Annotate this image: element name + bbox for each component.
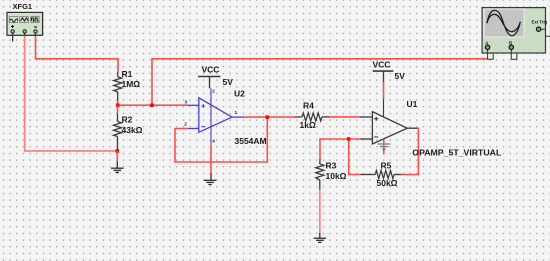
ground below R2 — [111, 162, 124, 173]
minus sign — [34, 26, 37, 28]
wire: R5 right to U1 output — [401, 128, 418, 174]
svg-text:VCC: VCC — [373, 60, 391, 70]
button square — [31, 17, 39, 23]
op-amp U1 (OPAMP_5T_VIRTUAL) — [360, 99, 417, 144]
terminal common — [23, 30, 26, 33]
junction node riser to scope — [150, 103, 154, 107]
ground below R3 — [314, 233, 327, 242]
function generator XFG1 — [7, 2, 43, 42]
svg-text:50kΩ: 50kΩ — [377, 178, 398, 188]
wire: XFG1 common terminal to R2 bottom node — [25, 35, 118, 151]
wire segment R4 right to U1 — [330, 116, 360, 118]
button sine — [9, 17, 17, 23]
terminal A — [485, 45, 489, 49]
svg-text:3554AM: 3554AM — [235, 136, 267, 146]
terminal Ext Trig — [536, 27, 540, 31]
wire: XFG1 minus terminal to R1 top — [36, 35, 119, 73]
stub + terminal — [12, 33, 14, 41]
wire: R5 feedback loop left — [349, 139, 361, 175]
VCC symbol U2 — [198, 64, 233, 88]
resistor R2 — [114, 114, 122, 150]
wire: divider node to U2 + input — [118, 101, 188, 106]
terminal - — [34, 30, 37, 33]
wire: U1 - input node to R3 — [320, 139, 360, 159]
svg-text:5V: 5V — [395, 71, 406, 81]
wire: U2 output to R4 to U1 + input — [243, 116, 295, 118]
svg-text:VCC: VCC — [202, 64, 220, 74]
svg-text:1: 1 — [235, 110, 238, 115]
junction node U2 output / feedback — [266, 115, 270, 119]
wire: VCC to U1 V+ pin — [383, 82, 385, 100]
wire: U2 feedback loop — [175, 117, 267, 162]
resistor R4 — [295, 113, 330, 121]
U1 V- reference bars — [378, 144, 391, 149]
wire: divider node riser to oscilloscope A — [152, 59, 488, 105]
terminal B — [509, 45, 513, 49]
svg-text:4: 4 — [212, 139, 215, 144]
button triangle — [20, 17, 29, 23]
svg-text:1MΩ: 1MΩ — [122, 79, 141, 89]
svg-text:10kΩ: 10kΩ — [326, 171, 347, 181]
svg-text:R4: R4 — [303, 101, 314, 111]
svg-text:R5: R5 — [381, 161, 392, 171]
wire divider node to R2 — [117, 105, 119, 114]
scope trace A — [487, 10, 520, 36]
pin numbers U2 — [184, 89, 237, 144]
VCC symbol U1 — [373, 60, 406, 82]
svg-text:2: 2 — [212, 89, 215, 94]
resistor R1 — [114, 72, 122, 100]
plus sign — [11, 25, 14, 28]
svg-text:R1: R1 — [122, 69, 133, 79]
wire R2 junction to ground — [116, 151, 118, 162]
resistor R5 — [361, 171, 402, 179]
svg-text:Ext Trig: Ext Trig — [532, 19, 548, 24]
svg-text:XFG1: XFG1 — [13, 2, 33, 11]
op-amp U2 (3554AM) — [188, 88, 244, 145]
svg-text:43kΩ: 43kΩ — [122, 125, 143, 135]
wire: R3 bottom to ground — [319, 190, 321, 233]
svg-text:1kΩ: 1kΩ — [300, 120, 316, 130]
stub - terminal — [35, 33, 37, 35]
svg-text:R2: R2 — [122, 115, 133, 125]
scope trace B — [487, 14, 520, 31]
terminal + — [11, 30, 14, 33]
svg-text:R3: R3 — [326, 161, 337, 171]
svg-text:U2: U2 — [234, 89, 245, 99]
svg-text:5V: 5V — [223, 77, 234, 87]
svg-text:2: 2 — [184, 122, 187, 127]
junction node U1 - / R5 — [347, 137, 351, 141]
oscilloscope XSC1 — [482, 8, 550, 60]
stub common terminal — [24, 33, 26, 35]
wire: U2 V- pin to ground — [210, 146, 212, 174]
svg-text:OPAMP_5T_VIRTUAL: OPAMP_5T_VIRTUAL — [412, 148, 501, 158]
svg-text:3: 3 — [185, 100, 188, 105]
junction node R2 bottom / ground — [116, 149, 120, 153]
junction node divider R1/R2 — [116, 103, 120, 107]
wire: U1 V- stub — [383, 139, 385, 155]
svg-text:U1: U1 — [407, 99, 418, 109]
resistor R3 — [316, 159, 324, 190]
ground below U2 — [204, 173, 217, 184]
